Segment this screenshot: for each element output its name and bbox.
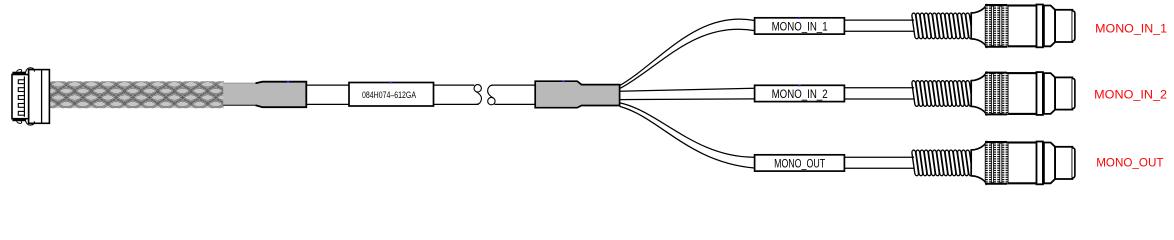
svg-text:084H074–612GA: 084H074–612GA	[362, 89, 417, 100]
svg-text:MONO_IN_2: MONO_IN_2	[1094, 88, 1167, 102]
svg-text:MONO_IN_1: MONO_IN_1	[1095, 22, 1167, 36]
svg-text:MONO_OUT: MONO_OUT	[774, 157, 825, 171]
svg-text:MONO_IN_1: MONO_IN_1	[772, 19, 828, 33]
svg-text:MONO_OUT: MONO_OUT	[1096, 155, 1164, 169]
svg-text:MONO_IN_2: MONO_IN_2	[772, 87, 828, 101]
